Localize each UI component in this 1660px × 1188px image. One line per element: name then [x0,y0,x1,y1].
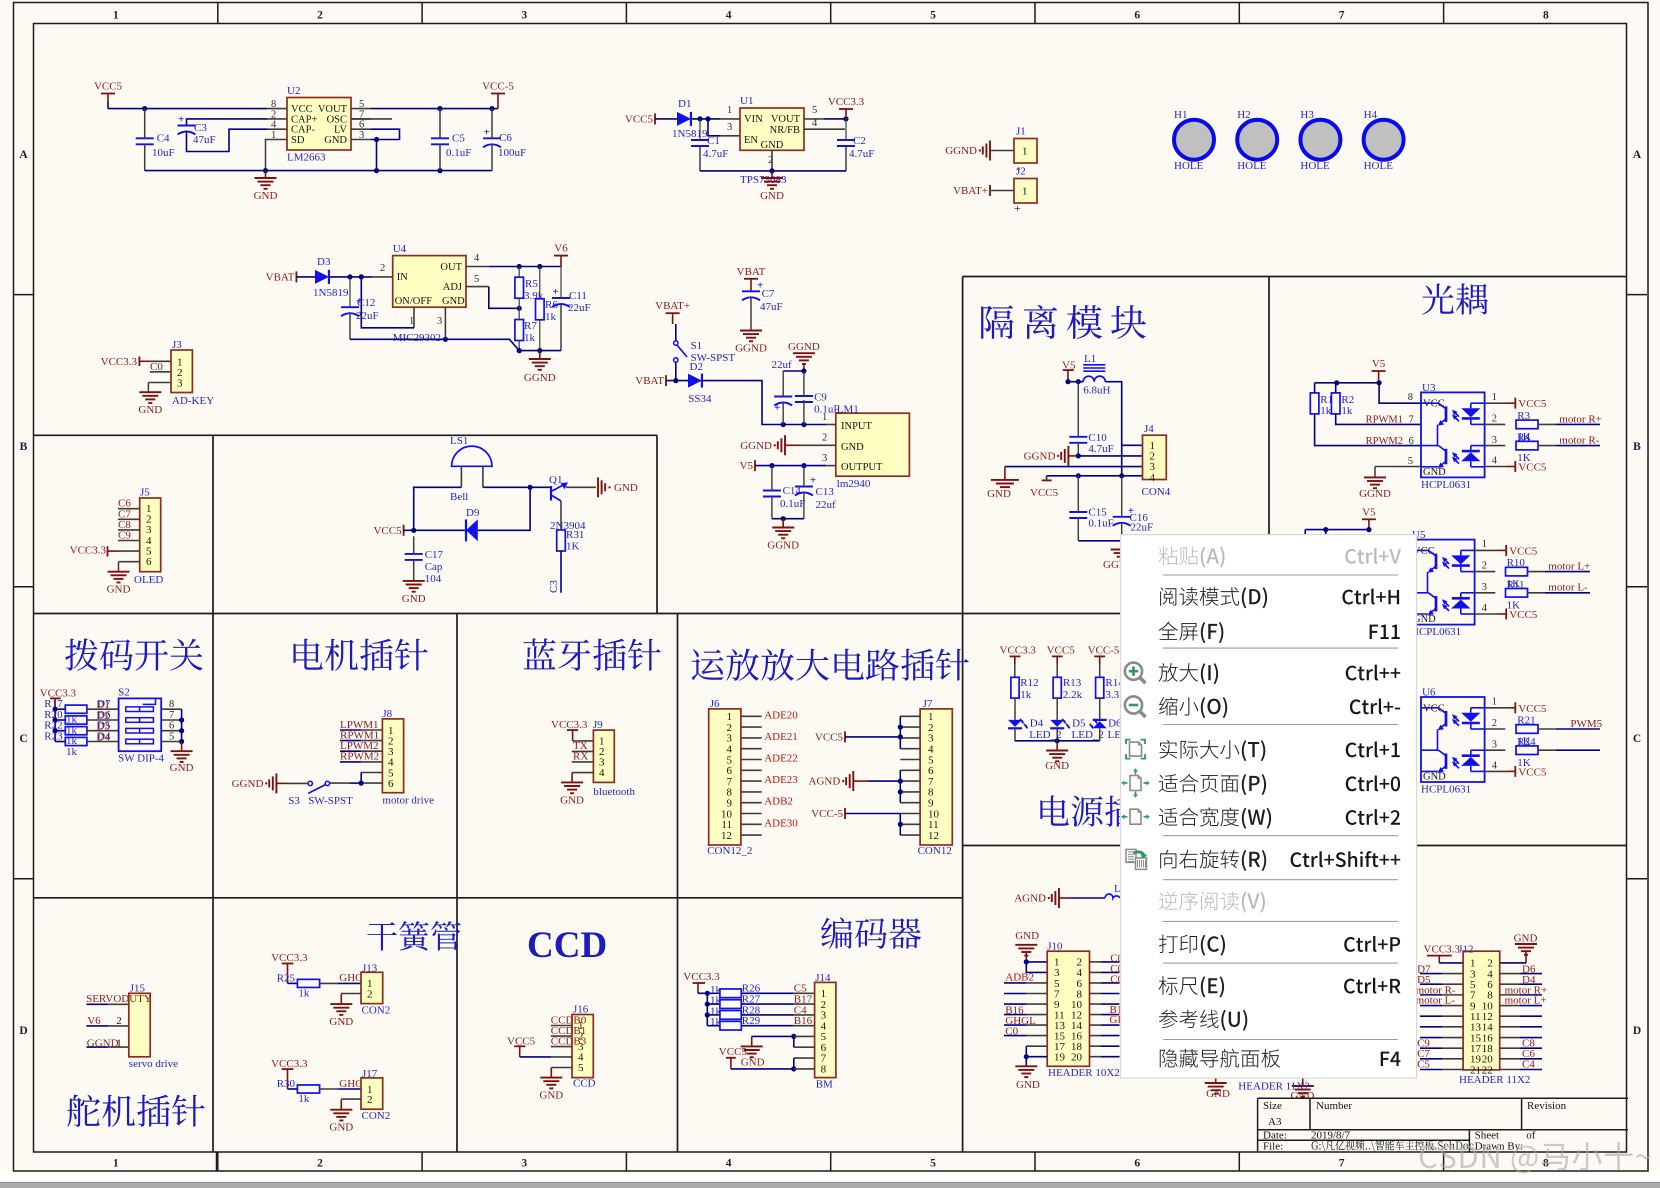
svg-text:U3: U3 [1422,382,1436,394]
svg-text:7: 7 [1339,1158,1345,1170]
svg-text:D4: D4 [96,731,110,743]
J6 stubs and net labels [741,715,762,717]
gnd rail under LEDs [1015,740,1100,742]
ground GND under J16 [540,1077,562,1079]
U1 pin4 NR/FB nc [804,128,845,130]
svg-text:LM1: LM1 [837,403,859,415]
svg-text:GND: GND [442,296,465,307]
svg-text:GND: GND [402,593,426,605]
svg-text:servo drive: servo drive [129,1058,178,1070]
svg-text:motor drive: motor drive [382,794,434,806]
net label VCC5 at bell [403,525,405,536]
ground GND at J14 pins 5,6 [752,1035,794,1037]
svg-text:VCC5: VCC5 [94,81,123,93]
wire D1 to U1 pin1 [691,118,720,120]
svg-text:INPUT: INPUT [841,421,873,432]
svg-text:J9: J9 [593,719,603,731]
svg-text:HCPL0631: HCPL0631 [1421,479,1471,491]
svg-text:1: 1 [409,316,414,327]
svg-text:6: 6 [146,556,152,568]
svg-text:AD-KEY: AD-KEY [172,395,214,407]
wire R31 to C3 net [560,551,562,593]
svg-text:3: 3 [822,453,827,464]
wire VBAT to D3 [296,276,316,278]
switch S2 SW DIP-4 [119,698,162,751]
svg-text:motor R-: motor R- [1559,435,1599,447]
svg-text:8: 8 [1408,392,1413,403]
diode D2 SS34 [688,374,702,388]
wire D2 to LM1 INPUT [702,381,826,425]
svg-text:C3: C3 [194,122,207,134]
svg-text:J14: J14 [815,972,831,984]
title 电机插针 [293,639,427,671]
VCC3.3 rail at S2 [54,709,56,741]
svg-text:C: C [19,733,27,745]
svg-text:C1: C1 [707,135,720,147]
svg-text:5: 5 [474,274,479,285]
svg-text:VCC5: VCC5 [1518,462,1547,474]
svg-text:MIC29302: MIC29302 [393,332,441,344]
power flag V6 [560,256,562,267]
svg-text:19: 19 [1054,1051,1066,1063]
U4 pin3 GND down [444,307,446,339]
sideways ground GGND at S3 [275,773,277,793]
wire GGND to J1 [990,150,1014,152]
svg-text:GGND: GGND [945,145,977,157]
svg-text:1: 1 [1482,539,1487,550]
svg-text:D: D [1633,1025,1641,1037]
svg-text:SS34: SS34 [688,393,712,405]
svg-text:RPWM2: RPWM2 [1366,436,1403,447]
column ticks top/bottom, row ticks left/right [217,3,219,24]
resistor R5 3.9k [515,277,524,298]
svg-text:V6: V6 [554,243,568,255]
ground GND under J9 [561,781,583,783]
switch S1 SW-SPST [675,324,677,341]
U6 pin2 through R21 to PWM5 [1485,728,1506,730]
U1 pin2 GND [771,150,773,171]
capacitor C16 [1113,516,1131,518]
svg-text:OUTPUT: OUTPUT [841,462,883,473]
svg-text:2: 2 [768,155,773,166]
svg-text:R31: R31 [566,529,584,541]
bottom rail C14/C13 [772,518,804,520]
wire VCC3.3 to J12 pin1 [1439,962,1463,964]
wire VCC3.3 to J9 pin1 [573,740,594,742]
svg-text:4.7uF: 4.7uF [1088,443,1113,455]
svg-text:GND: GND [614,482,638,494]
svg-text:GND: GND [560,794,584,806]
svg-text:3: 3 [1482,582,1487,593]
svg-text:GGND: GGND [232,778,264,790]
svg-text:R3: R3 [1517,410,1530,422]
svg-text:TPS73683: TPS73683 [740,174,787,186]
sideways ground GGND at J4 pin2 [1067,446,1069,466]
svg-text:J17: J17 [362,1068,378,1080]
watermark CSDN [1420,1142,1651,1173]
svg-text:VCC-5: VCC-5 [1088,644,1120,656]
svg-text:CON4: CON4 [1142,486,1171,498]
svg-text:J13: J13 [362,962,378,974]
svg-text:+: + [774,402,780,414]
svg-text:VCC5: VCC5 [815,731,844,743]
svg-text:1k: 1k [1320,405,1332,417]
svg-text:VCC5: VCC5 [1509,545,1538,557]
svg-text:1: 1 [1492,392,1497,403]
svg-text:D: D [19,1025,27,1037]
svg-text:0.1uF: 0.1uF [446,147,471,159]
wire GND to J10 pins 1,3 [1026,961,1047,963]
svg-text:4: 4 [1150,472,1156,484]
svg-text:22uF: 22uF [1131,522,1154,534]
svg-text:J5: J5 [140,486,150,498]
resistor R13 2.2k [1053,677,1061,698]
wire Q1 collector to GND [566,486,596,488]
svg-text:CON12: CON12 [918,845,952,857]
power flag VBAT at C7 [744,278,758,280]
svg-text:C13: C13 [816,486,835,498]
svg-text:R21: R21 [1517,715,1535,727]
power flag V5 at U5 [1362,518,1376,520]
svg-text:PWM5: PWM5 [1570,718,1602,730]
svg-text:J12: J12 [1458,944,1473,956]
svg-text:7: 7 [1409,415,1414,426]
wire D9 to Q1 riser [478,487,530,530]
wire ON/OFF to IN riser [361,277,414,328]
resistor R6 1k [536,299,545,320]
wire J3 pin2 [150,371,171,373]
wire VOUT rail to VCC-5 [371,108,498,110]
U6 pin1 to VCC5 [1485,707,1507,709]
svg-text:ADE20: ADE20 [764,709,798,721]
svg-text:VCC3.3: VCC3.3 [1000,644,1037,656]
svg-text:3: 3 [1492,435,1497,446]
svg-text:CCD: CCD [573,1077,596,1089]
svg-text:H1: H1 [1174,109,1187,121]
title 舵机插针 [67,1095,205,1127]
svg-text:4: 4 [474,253,480,264]
svg-text:bluetooth: bluetooth [593,786,635,798]
wire V5 through L1 to J4 pin1 [1068,381,1083,383]
svg-text:R24: R24 [1517,736,1536,748]
svg-text:GND: GND [324,135,347,146]
wire J13 pin2 to GND [341,993,361,995]
svg-text:4: 4 [1492,760,1498,771]
sideways ground GGND at LM1 pin2 [784,435,786,455]
connector J1 [1014,139,1037,164]
svg-text:S2: S2 [118,686,130,698]
ground GND under LEDs [1056,741,1058,751]
connector J13 CON2 [361,972,383,1003]
resistor R12 1k [1011,677,1019,698]
svg-text:1: 1 [1492,697,1497,708]
wire down to pin4 row [1121,445,1123,476]
svg-text:D2: D2 [690,361,703,373]
svg-text:1k: 1k [66,746,78,758]
wire J17 pin2 to GND [341,1098,361,1100]
svg-text:VOUT: VOUT [771,114,801,125]
wire R25 to J13 pin1, net GHGR [320,982,338,984]
svg-text:C7: C7 [762,288,775,300]
wire J8 pin6 to switch S3 [361,782,382,784]
svg-text:+: + [553,286,559,298]
file path text [1312,1140,1474,1151]
svg-text:C17: C17 [425,549,444,561]
hole H1 [1174,120,1214,160]
U5 pin3 through R11 to motor L- [1475,592,1496,594]
power flag V5 at U3 [1372,370,1386,372]
svg-text:OLED: OLED [134,574,163,586]
svg-text:R11: R11 [1507,579,1525,591]
svg-text:C: C [1633,733,1641,745]
svg-text:1k: 1k [710,1016,722,1028]
wire VCC-5 rail J7 pins10-12 [845,813,900,815]
svg-text:GGND: GGND [1359,488,1391,500]
ic LM1 lm2940 [836,413,910,476]
wire S1 to VBAT junction [675,362,677,380]
svg-text:HEADER 11X2: HEADER 11X2 [1459,1074,1530,1086]
svg-text:SW DIP-4: SW DIP-4 [118,753,164,765]
ground GND under J3 [139,391,161,393]
svg-text:GGND: GGND [740,440,772,452]
svg-text:GGND: GGND [767,540,799,552]
title 蓝牙插针 [523,638,660,670]
svg-text:GGND: GGND [735,343,767,355]
svg-text:1k: 1k [1341,405,1353,417]
section divider lines [34,434,658,436]
net label VBAT at D3 [295,271,297,282]
gnd bus under U1 [700,170,846,172]
svg-text:OUT: OUT [440,262,462,273]
svg-text:ADE23: ADE23 [764,774,798,786]
svg-text:6: 6 [388,778,394,790]
connector J17 CON2 [361,1078,383,1109]
svg-text:3: 3 [521,10,527,22]
resistor R2 1k [1331,393,1340,414]
svg-text:VCC5: VCC5 [1047,644,1076,656]
svg-text:R12: R12 [1020,677,1038,689]
capacitor C4 [136,137,154,139]
svg-text:GGND: GGND [524,372,556,384]
svg-text:VCC5: VCC5 [1518,766,1547,778]
svg-text:5: 5 [169,732,174,743]
resistor R7 1k [515,320,524,341]
svg-text:A: A [19,149,28,161]
svg-text:7: 7 [169,710,174,721]
J12 right wires and labels [1500,973,1520,975]
U5 pin1 to VCC5 [1475,549,1497,551]
power flag VCC5 [101,93,115,95]
wire R1 to RPWM2 pin6 [1315,414,1421,446]
svg-text:AGND: AGND [809,776,841,788]
power flag VCC5 at J7 [844,731,846,742]
svg-text:1k: 1k [298,1093,310,1105]
svg-text:3: 3 [727,122,732,133]
wire U3 pin5 to GGND [1375,466,1421,468]
svg-text:B16: B16 [794,1015,813,1027]
svg-text:CCD: CCD [527,925,607,966]
svg-text:J7: J7 [923,698,933,710]
svg-text:2: 2 [1492,718,1497,729]
svg-text:20: 20 [1071,1051,1083,1063]
svg-text:SD: SD [291,135,305,146]
S2 right pins 8-5 [161,708,181,710]
svg-text:+: + [810,475,816,487]
svg-text:2: 2 [1492,414,1497,425]
wire R30 to J17 pin1, net GHGL [320,1088,338,1090]
svg-text:S1: S1 [691,340,703,352]
switch S3 SW-SPST [308,781,312,785]
ground GGND under C7 [740,330,762,332]
svg-text:8: 8 [821,1063,827,1075]
svg-text:U6: U6 [1422,687,1436,699]
ic U4 MIC29302 [393,256,466,308]
optocoupler U5 HCPL0631 [1411,540,1475,625]
svg-text:VCC3.3: VCC3.3 [828,96,865,108]
U6 pin3 through R24 [1485,749,1506,751]
svg-text:C5: C5 [452,132,465,144]
wire R2 to RPWM1 pin7 [1336,414,1421,425]
svg-text:6: 6 [1134,10,1140,22]
svg-text:A3: A3 [1268,1116,1282,1128]
svg-text:+: + [484,126,490,138]
svg-text:C6: C6 [499,132,512,144]
svg-text:+: + [1014,201,1021,215]
svg-text:6.8uH: 6.8uH [1083,385,1110,397]
wire J16 pin5 to GND [551,1067,572,1069]
resistors R26-R29 1k [707,992,720,994]
net label VBAT at D2 [665,375,667,386]
svg-text:GND: GND [170,762,194,774]
J10 right wires and labels [1090,961,1102,963]
svg-text:4: 4 [726,1158,732,1170]
sideways ground GND at Q1 [597,477,599,497]
svg-text:HCPL0631: HCPL0631 [1421,784,1471,796]
U4 pin4 OUT [466,266,489,268]
svg-text:6: 6 [1409,436,1414,447]
U1 pin5 VOUT [804,118,824,120]
capacitor C1 [691,139,709,141]
wire ADJ to divider [489,287,519,309]
lower rail under divider [519,350,561,352]
svg-text:VCC5: VCC5 [1518,398,1547,410]
svg-text:2: 2 [1482,561,1487,572]
svg-text:VCC5: VCC5 [719,1046,748,1058]
svg-text:4: 4 [599,767,605,779]
svg-text:3: 3 [359,130,364,141]
U5 pin2 through R10 to motor L+ [1475,571,1496,573]
svg-text:ADB2: ADB2 [764,796,793,808]
capacitor C13 [795,486,813,488]
svg-text:H3: H3 [1300,109,1314,121]
svg-text:1N5819: 1N5819 [672,128,708,140]
svg-text:CON2: CON2 [362,1110,391,1122]
svg-text:5: 5 [812,105,817,116]
svg-text:Q1: Q1 [549,474,562,486]
svg-text:1: 1 [1022,146,1028,158]
svg-text:LM2663: LM2663 [287,152,326,164]
svg-text:H4: H4 [1364,109,1378,121]
ic U2 LM2663 [287,98,351,151]
svg-text:AGND: AGND [1014,893,1046,905]
svg-text:NR/FB: NR/FB [770,125,800,136]
capacitor C11 [552,297,570,299]
svg-text:ADE21: ADE21 [764,731,798,743]
connector J4 CON4 [1143,435,1167,479]
bell legs [460,466,462,487]
svg-text:2: 2 [317,1158,323,1170]
svg-text:motor L-: motor L- [1548,582,1588,594]
svg-text:GND: GND [329,1122,353,1134]
context menu [1121,535,1417,1078]
wire VCC5 to D1 [655,118,677,120]
svg-text:EN: EN [744,135,758,146]
capacitor C7 [742,290,760,292]
ground GND under C17 [403,580,425,582]
net label V5 at LM1 [754,460,756,471]
hole H3 [1300,120,1340,160]
svg-text:U2: U2 [287,85,300,97]
wire OUT rail to V6 [489,266,561,268]
title 隔离模块 [981,305,1146,339]
wire VCC5 to U2 pin8 [108,108,267,110]
svg-text:R23: R23 [44,731,63,743]
ground GND right below J11 [1302,1078,1304,1086]
rail VCC3.3 to R26-R29 [698,992,707,994]
svg-text:R10: R10 [1507,557,1526,569]
svg-text:HOLE: HOLE [1237,160,1267,172]
U3 pin1 to VCC5 [1485,402,1507,404]
svg-text:R7: R7 [524,320,537,332]
svg-text:of: of [1526,1130,1536,1142]
svg-text:V5: V5 [1372,358,1386,370]
svg-text:LS1: LS1 [450,435,468,447]
net label VCC-5 at J7 [844,808,846,819]
svg-text:22uf: 22uf [772,359,793,371]
led D4 LED_2 [1014,698,1016,720]
svg-text:D9: D9 [466,507,480,519]
capacitor C15 [1069,511,1087,513]
svg-text:D5: D5 [1072,718,1086,730]
resistors R17 R20 R22 R23 1k [55,708,65,710]
svg-text:C3: C3 [548,580,560,593]
svg-text:D3: D3 [317,256,331,268]
wire VCC5 to J16 pin4 [520,1056,552,1058]
svg-text:VBAT: VBAT [737,266,766,278]
svg-text:3: 3 [1492,739,1497,750]
svg-text:100uF: 100uF [498,147,526,159]
hole H4 [1364,120,1404,160]
svg-text:VCC5: VCC5 [1030,487,1059,499]
svg-text:RPWM2: RPWM2 [340,751,379,763]
svg-text:HEADER 11X2: HEADER 11X2 [1238,1081,1309,1093]
power flag VCC-5 [497,94,499,109]
top rail R1/R2/V5 [1315,382,1380,384]
svg-text:VCC: VCC [1423,703,1445,714]
svg-text:VCC3.3: VCC3.3 [683,971,720,983]
svg-text:VCC5: VCC5 [1509,609,1538,621]
svg-text:VCC: VCC [1423,399,1445,410]
svg-text:GND: GND [760,190,784,202]
svg-text:C2: C2 [853,135,866,147]
svg-text:L1: L1 [1084,353,1096,365]
svg-text:1: 1 [113,10,119,22]
U4 pin1 ON/OFF down [413,307,415,328]
wire bell left leg to VCC5 [414,487,462,530]
svg-text:B: B [20,441,28,453]
connector J8 motor drive [382,719,403,793]
svg-text:GND: GND [1206,1088,1230,1100]
